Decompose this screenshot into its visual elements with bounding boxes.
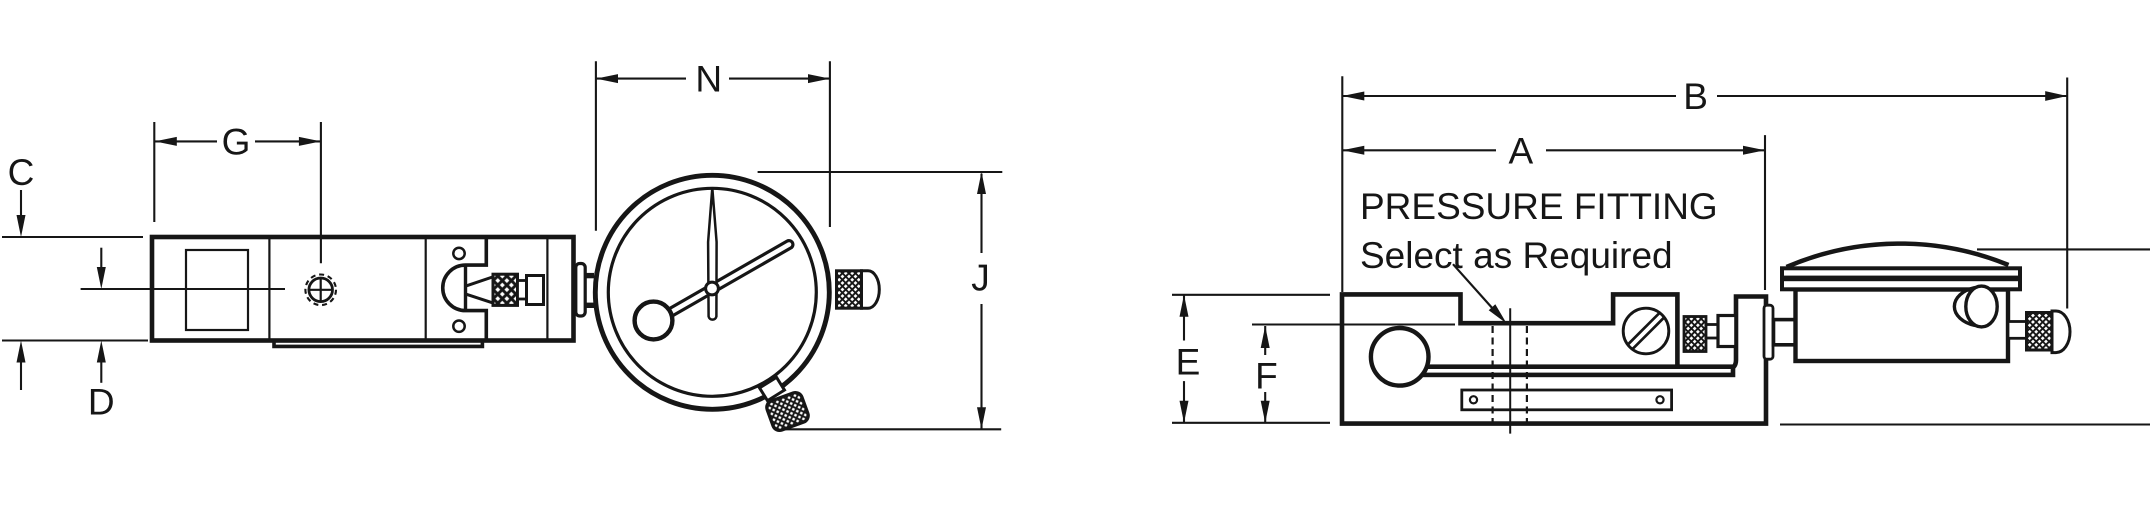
bottom edge extension line left <box>2 339 148 341</box>
screw hole circle <box>309 278 333 302</box>
lever ball <box>1371 328 1429 386</box>
dimension F arrow up <box>1261 326 1270 348</box>
screw hole cross horizontal <box>310 289 332 291</box>
dimension G extension line right <box>320 122 322 263</box>
clamp jaw U-notch <box>443 238 487 340</box>
dovetail stem plate <box>576 264 585 317</box>
dimension B extension line right <box>2066 78 2068 309</box>
dimension A extension line right <box>1764 135 1766 290</box>
svg-text:N: N <box>695 59 722 100</box>
dimension E extension line top <box>1172 294 1330 296</box>
bezel stack <box>1782 268 2020 289</box>
dimension E extension line bottom <box>1172 422 1330 424</box>
right knob cap <box>2052 311 2070 353</box>
inner square window <box>186 250 248 330</box>
fitting hole centerline <box>1509 308 1511 433</box>
dimension J extension line bottom <box>785 428 1001 430</box>
base plate <box>1462 390 1672 410</box>
dimension G arrow left <box>155 137 177 146</box>
svg-text:B: B <box>1683 76 1708 117</box>
dial outer circle <box>595 175 829 409</box>
adjuster knurled nut <box>1684 317 1706 352</box>
side knob crescent <box>1954 288 1975 326</box>
base plate rivet left <box>1470 396 1477 403</box>
section divider 3 <box>546 239 548 339</box>
dimension F extension line <box>1252 323 1455 325</box>
screw hole dashed circle <box>305 275 336 306</box>
svg-text:F: F <box>1255 356 1278 397</box>
dimension A arrow left <box>1342 146 1364 155</box>
side knob knurl <box>837 271 862 308</box>
dimension B arrow left <box>1342 92 1364 101</box>
bottom knob <box>765 391 810 433</box>
side plate on frame <box>1764 305 1773 359</box>
dimension D arrow down <box>97 267 106 289</box>
dimension C stem top <box>20 190 22 217</box>
svg-text:Select as Required: Select as Required <box>1360 235 1673 276</box>
dimension A line <box>1342 149 1496 151</box>
dimension E arrow down <box>1180 401 1189 423</box>
dimension D stem top <box>100 248 102 269</box>
dimension E line <box>1183 295 1185 341</box>
top edge extension line left <box>2 236 143 238</box>
side knob cap <box>862 271 880 308</box>
dimension B line <box>1342 95 1676 97</box>
dimension N extension line right <box>829 61 831 227</box>
svg-text:G: G <box>222 122 251 163</box>
needle hub <box>706 282 719 295</box>
dimension G line <box>155 140 217 142</box>
svg-text:PRESSURE FITTING: PRESSURE FITTING <box>1360 186 1718 227</box>
pointer needle <box>708 188 717 320</box>
lever bar <box>1424 367 1733 375</box>
dovetail connector bar top <box>584 273 595 278</box>
indicator housing <box>1796 290 2009 362</box>
crystal dome <box>1787 244 2009 267</box>
dimension G extension line left <box>153 122 155 222</box>
side knob face <box>1966 286 1997 327</box>
base plate rivet right <box>1656 396 1663 403</box>
clamp stem step <box>518 281 527 300</box>
dimension C arrow down <box>17 215 26 237</box>
svg-text:D: D <box>88 382 115 423</box>
bottom lip plate <box>274 341 482 346</box>
adjuster step <box>1706 325 1718 339</box>
screw hole cross vertical <box>320 279 322 301</box>
connecting rod <box>1774 320 1797 345</box>
contact lever arm outline <box>660 245 789 319</box>
leader arrowhead <box>1489 304 1507 323</box>
fitting hole dashed line left <box>1491 326 1493 422</box>
dimension F arrow down <box>1261 401 1270 423</box>
dovetail connector bar bottom <box>584 303 595 308</box>
bottom right extension line <box>1780 423 2150 425</box>
svg-text:A: A <box>1508 131 1533 172</box>
screw slot line 2 <box>1633 318 1665 350</box>
dimension A/B extension line left <box>1341 76 1343 292</box>
adjuster end block <box>1718 316 1736 347</box>
dimension G arrow right <box>299 137 321 146</box>
clamp screw head <box>1623 308 1669 354</box>
section divider 1 <box>268 239 270 339</box>
dimension D arrow up <box>97 341 106 363</box>
svg-text:J: J <box>971 258 990 299</box>
contact ball <box>635 302 673 340</box>
dimension J extension line top <box>758 171 1003 173</box>
right knob knurl <box>2027 313 2053 351</box>
clamp taper upper line <box>467 277 495 286</box>
clamp taper lower line <box>467 294 495 303</box>
dimension D stem bottom <box>100 361 102 383</box>
dimension F line <box>1264 326 1266 355</box>
fitting hole dashed line right <box>1526 326 1528 422</box>
dimension J line <box>980 174 982 253</box>
clamp knurled nut <box>493 274 518 305</box>
dimension E arrow up <box>1180 295 1189 317</box>
leader line <box>1453 264 1498 314</box>
dimension N arrow left <box>596 74 618 83</box>
dimension N arrow right <box>808 74 830 83</box>
clamp jaw chord line <box>464 265 467 311</box>
svg-text:E: E <box>1176 342 1201 383</box>
gauge body rectangle <box>152 237 574 341</box>
contact lever arm core <box>660 245 789 319</box>
clamp frame outline <box>1342 294 1766 423</box>
section divider 2 <box>425 239 427 339</box>
dimension J arrow down <box>977 407 986 429</box>
bezel stack middle band <box>1782 276 2020 282</box>
centerline through body <box>81 288 285 290</box>
screw slot line 1 <box>1628 313 1660 345</box>
dimension C stem bottom <box>20 361 22 390</box>
bottom knob neck <box>760 377 785 400</box>
clamp end block <box>527 276 544 305</box>
dimension N line <box>596 78 686 80</box>
dimension J arrow up <box>977 172 986 194</box>
dimension A arrow right <box>1743 146 1765 155</box>
top right extension line <box>1977 248 2150 250</box>
dial inner circle <box>608 188 816 396</box>
dimension N extension line left <box>595 61 597 230</box>
dimension C arrow up <box>17 341 26 363</box>
dimension B arrow right <box>2045 91 2067 101</box>
svg-text:C: C <box>8 152 35 193</box>
clamp pin hole bottom <box>453 321 464 332</box>
right knob neck <box>2008 322 2027 339</box>
clamp pin hole top <box>453 248 464 259</box>
